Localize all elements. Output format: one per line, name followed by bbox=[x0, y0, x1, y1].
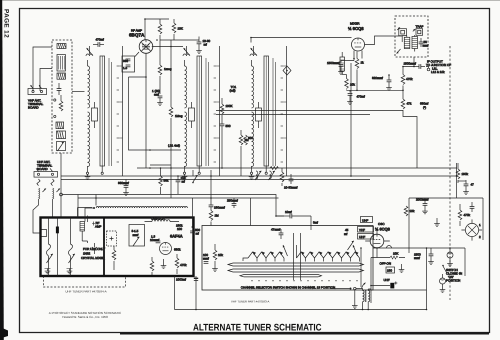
thin partition bbox=[57, 218, 59, 277]
svg-text:6BQ7A: 6BQ7A bbox=[129, 33, 145, 38]
svg-text:10k: 10k bbox=[410, 209, 415, 213]
cathode resistor 1k bbox=[355, 59, 364, 91]
c-match coil bbox=[145, 217, 180, 222]
svg-text:1M: 1M bbox=[215, 214, 220, 218]
svg-text:10-30mmf: 10-30mmf bbox=[284, 186, 298, 190]
wire v1 to strip2 bbox=[152, 46, 183, 48]
long dashed partition line bbox=[449, 46, 451, 300]
tall switch arm A bbox=[283, 245, 288, 256]
cap 1000mf symbol bbox=[194, 278, 198, 280]
transformer input terminals bbox=[330, 287, 363, 290]
dashed box converter bbox=[395, 16, 428, 57]
v1 internal structure bbox=[142, 43, 151, 52]
svg-text:470k: 470k bbox=[406, 77, 413, 81]
pilot lamp 1 bbox=[447, 248, 453, 266]
B+ bus bbox=[61, 175, 457, 177]
wire T1 secondary down to if cap bbox=[413, 57, 415, 67]
svg-text:47: 47 bbox=[471, 183, 475, 187]
uhf-vhf switch arm bbox=[192, 170, 197, 183]
osc feedback loop wire bbox=[409, 198, 483, 253]
wiper bar 2 bbox=[228, 269, 364, 272]
choke terminal dot bbox=[93, 207, 95, 209]
svg-text:(*): (*) bbox=[423, 106, 426, 110]
terminal box TRAP bbox=[413, 24, 424, 35]
cap 10mf top bbox=[276, 210, 311, 230]
svg-text:10k: 10k bbox=[350, 83, 355, 87]
tuner strip L6 interstage bbox=[183, 46, 220, 176]
svg-text:10K: 10K bbox=[178, 27, 183, 31]
resistor 10k osc bbox=[404, 206, 415, 216]
svg-text:10k: 10k bbox=[218, 253, 223, 257]
uhf mixer coil form bbox=[80, 222, 88, 244]
primary return to ground bbox=[352, 290, 358, 309]
svg-text:2000mmf: 2000mmf bbox=[416, 198, 429, 202]
svg-text:680k: 680k bbox=[174, 248, 181, 252]
svg-text:mmf: mmf bbox=[423, 44, 429, 48]
agc line from v1 bbox=[129, 77, 182, 150]
vertical feed at 211 bbox=[210, 170, 212, 198]
right return vertical bbox=[426, 248, 428, 310]
choke RFC2 bbox=[53, 188, 61, 218]
junction wire y90 bbox=[347, 89, 404, 91]
mixer cathode wires bbox=[354, 51, 362, 61]
terminal node 2 bbox=[54, 115, 56, 117]
tube V1 6BQ7A bbox=[139, 40, 153, 54]
svg-text:1N82: 1N82 bbox=[83, 252, 91, 256]
resistor 1M above enclosure bbox=[209, 211, 219, 226]
svg-text:PAGE 12: PAGE 12 bbox=[3, 9, 10, 38]
tall switch arm B bbox=[353, 245, 358, 256]
svg-text:1Meg: 1Meg bbox=[175, 114, 183, 118]
wire mixer plate right into dashed box bbox=[365, 36, 403, 45]
svg-text:TRAP: TRAP bbox=[416, 24, 424, 28]
tuning variable arrow bbox=[348, 241, 354, 250]
label box 180mmf bbox=[386, 267, 395, 273]
arrow into box bbox=[397, 49, 401, 54]
capacitor 1500mmf mixer bbox=[327, 61, 354, 75]
capacitor 2000mmf bbox=[416, 198, 429, 214]
svg-text:47k: 47k bbox=[407, 102, 412, 106]
transformer T1 secondary bbox=[412, 35, 418, 52]
agc source circle bbox=[60, 193, 63, 196]
resistor left in osc compartment bbox=[112, 246, 116, 270]
svg-text:100K: 100K bbox=[226, 104, 233, 108]
svg-text:mf: mf bbox=[344, 232, 347, 236]
wiper bar 3 bbox=[240, 275, 322, 277]
tube V3 osc half 6CQ8 bbox=[370, 234, 384, 248]
resistor 470k osc grid bbox=[458, 204, 470, 226]
svg-text:(.01 4mf): (.01 4mf) bbox=[168, 144, 180, 148]
bus mid right 2 bbox=[216, 114, 370, 116]
dashed box antenna matching unit bbox=[52, 40, 72, 153]
resistor in matching box bbox=[59, 95, 63, 111]
bold enclosure bbox=[41, 218, 194, 277]
transformer T1 primary bbox=[403, 35, 410, 48]
long rf choke to osc bbox=[96, 207, 187, 209]
page left black edge bar bbox=[0, 0, 4, 340]
svg-text:POSITION: POSITION bbox=[446, 279, 460, 283]
svg-text:mf: mf bbox=[182, 180, 185, 184]
to if amp label bbox=[92, 221, 102, 229]
uhf tuned line A bbox=[45, 218, 53, 277]
choke RFC1 bbox=[33, 188, 47, 237]
svg-text:FOR UHF ONLY: FOR UHF ONLY bbox=[83, 247, 105, 251]
svg-text:mmf: mmf bbox=[133, 233, 139, 237]
vertical feed tube side bbox=[376, 248, 378, 258]
wire dashed box to strip1 bbox=[72, 91, 85, 93]
AGC bus bbox=[61, 179, 370, 181]
svg-text:C-MATCH: C-MATCH bbox=[151, 217, 165, 221]
wire pilot bus down bbox=[464, 248, 466, 276]
b+ drop into uhf osc bbox=[190, 198, 200, 236]
capacitor 2mmf bbox=[57, 83, 62, 95]
svg-text:VHF TUNER PART #470593-A: VHF TUNER PART #470593-A bbox=[231, 300, 269, 304]
selector contacts group A bbox=[248, 252, 257, 262]
svg-text:10K: 10K bbox=[393, 252, 398, 256]
svg-text:CRYSTAL MIXER: CRYSTAL MIXER bbox=[81, 256, 106, 260]
resistor 1meg strip2 bbox=[169, 103, 183, 198]
svg-text:BOARD: BOARD bbox=[37, 167, 49, 171]
resistor left inside enclosure bbox=[212, 244, 223, 271]
uhf position box bbox=[361, 217, 373, 223]
choke input drop bbox=[85, 208, 93, 222]
resistor 10k osc inj bbox=[345, 75, 356, 91]
resistor 470k upper bbox=[401, 75, 413, 100]
svg-text:1000mf: 1000mf bbox=[176, 278, 186, 282]
transformer bottom wires bbox=[363, 302, 369, 310]
capacitor 47 with ground bbox=[458, 180, 474, 194]
resistor 470k uhf osc bbox=[150, 257, 154, 275]
svg-text:AMP: AMP bbox=[95, 225, 102, 229]
uhf antenna terminal board bbox=[34, 168, 58, 177]
cap 47mmf bbox=[271, 228, 283, 240]
winding 2 tap up bbox=[368, 289, 371, 291]
uhf tuned line B bbox=[67, 218, 75, 277]
tube V4 6AF4A bbox=[160, 243, 172, 255]
svg-text:VHF: VHF bbox=[359, 228, 365, 232]
vhf-uhf tuning boxes bbox=[344, 227, 374, 240]
v1 cathode wires down bbox=[129, 52, 147, 77]
svg-text:600: 600 bbox=[248, 136, 253, 140]
cap 1500mmf fil bbox=[414, 248, 434, 264]
resistor dropping top bbox=[158, 19, 162, 65]
svg-text:470mf: 470mf bbox=[357, 95, 366, 99]
resistor 1meg grid leak bbox=[158, 65, 172, 94]
capacitor 500 below 100K bbox=[220, 115, 231, 168]
cap 250mmf on feed bbox=[227, 198, 238, 208]
svg-text:180mmf: 180mmf bbox=[214, 206, 225, 210]
vertical feed left bbox=[370, 258, 372, 304]
filament drop to transformer bbox=[360, 248, 362, 287]
v1 plate wire up bbox=[145, 19, 169, 40]
bold partition bbox=[103, 218, 105, 277]
svg-text:180: 180 bbox=[387, 269, 392, 273]
svg-text:47mmf: 47mmf bbox=[271, 228, 280, 232]
resistor right uhf osc bbox=[175, 254, 187, 274]
capacitor 860mmf between buses bbox=[118, 180, 129, 196]
ground right of 180 box bbox=[399, 264, 405, 272]
capacitor 470mf strip1 bbox=[93, 38, 104, 47]
plate load wire bbox=[160, 39, 199, 41]
vhf antenna terminal board bbox=[28, 85, 47, 94]
resistor 47k lower bbox=[401, 99, 417, 168]
cap 10-30mmf bbox=[284, 174, 298, 190]
ground mid bbox=[434, 221, 440, 226]
resistor 1M right of strip2 bbox=[239, 130, 249, 176]
wires above bold box bbox=[78, 208, 93, 218]
svg-text:1500mmf: 1500mmf bbox=[327, 61, 340, 65]
on-off switch bbox=[442, 265, 446, 273]
screen bypass cap bbox=[152, 89, 163, 105]
b+ feed line bbox=[78, 195, 279, 218]
heater series resistor bbox=[269, 166, 280, 170]
v1 cathode return bbox=[145, 77, 147, 168]
right branch vertical bbox=[456, 163, 458, 198]
svg-text:BOARD: BOARD bbox=[28, 106, 40, 110]
balun transformer box bbox=[57, 55, 65, 72]
ground strip1 bbox=[85, 174, 91, 179]
svg-text:470mf: 470mf bbox=[96, 38, 105, 42]
svg-text:OFF-ON: OFF-ON bbox=[380, 262, 392, 266]
diamond test point bbox=[283, 66, 291, 75]
svg-text:470k: 470k bbox=[180, 263, 187, 267]
ganged trimmer dashed bbox=[107, 231, 117, 246]
uhf if out drop bbox=[195, 276, 197, 310]
main vertical left branch bbox=[403, 67, 414, 75]
svg-text:(adj): (adj) bbox=[230, 89, 236, 93]
power transformer T2 bbox=[363, 290, 370, 302]
ground strip2 bbox=[182, 174, 188, 179]
wire enclosure right to transformer bbox=[373, 247, 465, 249]
svg-text:6AF4A: 6AF4A bbox=[170, 234, 183, 239]
resistor 10K bbox=[172, 19, 183, 40]
terminal box B+ bbox=[397, 27, 406, 35]
if output terminal bbox=[426, 67, 430, 71]
agc feed line bbox=[63, 195, 285, 217]
contact dots row bbox=[251, 280, 357, 281]
svg-text:56k: 56k bbox=[164, 179, 169, 183]
bus mid right 1 bbox=[216, 110, 403, 112]
svg-text:250mmf: 250mmf bbox=[227, 199, 238, 203]
feed drop to enclosure bbox=[250, 198, 252, 226]
coil L1 top hatched bbox=[57, 44, 66, 49]
coil L4 box bbox=[57, 131, 66, 139]
svg-text:ALTERNATE TUNER SCHEMATIC: ALTERNATE TUNER SCHEMATIC bbox=[193, 323, 322, 334]
trimmer box 3-1.5mmf bbox=[129, 225, 145, 247]
svg-text:MIXER: MIXER bbox=[350, 22, 360, 26]
svg-text:1meg: 1meg bbox=[164, 67, 172, 71]
svg-text:mmf: mmf bbox=[203, 257, 209, 261]
bottom return wire bbox=[175, 309, 427, 311]
coil L3 bbox=[56, 122, 64, 129]
contact rail stubs bbox=[243, 245, 297, 261]
svg-text:10mf: 10mf bbox=[285, 210, 292, 214]
title underline thick segment bbox=[120, 332, 489, 334]
heater bus upper bbox=[137, 167, 457, 169]
svg-text:mf: mf bbox=[196, 232, 199, 236]
feedthrough black bar bbox=[56, 227, 59, 234]
svg-text:mmf: mmf bbox=[414, 256, 420, 260]
tuner strip L5 RF input bbox=[86, 46, 123, 176]
vhf enclosure box bbox=[202, 226, 373, 291]
uhf lead-in breaks bbox=[37, 179, 54, 186]
wire from matching box to antenna terminal bbox=[33, 47, 52, 91]
link strip1 to strip2 bbox=[150, 164, 171, 166]
svg-text:½ 6CQ8: ½ 6CQ8 bbox=[375, 227, 391, 232]
capacitor 56mmf bbox=[419, 38, 429, 48]
wire strip3 to mixer grid bbox=[251, 38, 352, 43]
v1 long grid return bbox=[170, 40, 172, 103]
page bottom-left corner shadow bbox=[0, 327, 8, 339]
svg-text:500: 500 bbox=[226, 124, 231, 128]
bold box down wire bbox=[174, 276, 176, 310]
svg-text:470k: 470k bbox=[464, 213, 471, 217]
svg-text:UHF: UHF bbox=[384, 278, 390, 282]
svg-text:860mmf: 860mmf bbox=[118, 181, 129, 185]
cap box 330-1.5mf at v1 grid bbox=[122, 56, 135, 72]
wiper bar 1 bbox=[228, 263, 364, 266]
tuned coil with arrow bbox=[57, 142, 66, 152]
svg-text:UHF: UHF bbox=[362, 219, 368, 223]
cap 1.5mmf bbox=[150, 235, 160, 243]
strip3 bottom trimmer coil B bbox=[269, 171, 275, 180]
capacitor +10mf hanging bbox=[176, 176, 186, 194]
svg-text:UHF TUNER PART #470594-A: UHF TUNER PART #470594-A bbox=[65, 290, 106, 294]
crossover hump on filament bus bbox=[387, 246, 392, 248]
svg-text:1k: 1k bbox=[361, 61, 365, 65]
svg-text:Howard W. Sams & Co., Inc. 195: Howard W. Sams & Co., Inc. 1958 bbox=[62, 315, 108, 319]
selector shaft verticals bbox=[294, 233, 301, 280]
ground strip3 bbox=[249, 174, 255, 179]
svg-text:820mmf: 820mmf bbox=[372, 76, 383, 80]
cap 100mmf inside left bbox=[203, 253, 209, 263]
page top edge shadow bbox=[0, 0, 500, 1]
svg-text:CHANNEL SELECTOR SWITCH SHOWN: CHANNEL SELECTOR SWITCH SHOWN IN CHANNEL… bbox=[241, 286, 335, 290]
svg-text:180k: 180k bbox=[462, 172, 469, 176]
dashed outline below bold box bbox=[44, 276, 126, 287]
svg-text:UHF: UHF bbox=[359, 235, 365, 239]
capacitor 10-30mf bbox=[196, 37, 210, 54]
svg-text:100: 100 bbox=[177, 227, 182, 231]
if output coupling cap 1500mmf bbox=[404, 62, 426, 69]
capacitor 820mmf at mixer ground bbox=[372, 75, 392, 90]
svg-text:mf: mf bbox=[204, 43, 207, 47]
electrolytic black cap bbox=[371, 282, 397, 289]
coil L2 bbox=[57, 73, 65, 79]
ground under uhf osc tube bbox=[161, 259, 167, 268]
v3 wires bbox=[365, 230, 390, 241]
svg-text:1.5: 1.5 bbox=[123, 66, 128, 70]
selector contacts group B bbox=[297, 252, 306, 262]
resistor 100K right of strip2 bbox=[220, 98, 232, 114]
resistor 56k hanging bbox=[159, 168, 169, 194]
cap 180mmf above enclosure bbox=[209, 198, 225, 211]
cap 470mf bypass bbox=[347, 90, 365, 104]
wire choke down to mixer bbox=[87, 216, 89, 223]
balun output wire down bbox=[60, 153, 62, 217]
mixer cathode drop bbox=[350, 63, 352, 176]
small resistor in heater line bbox=[371, 256, 405, 259]
capacitor osc bbox=[470, 202, 475, 212]
svg-text:L12 & 10k: L12 & 10k bbox=[431, 70, 445, 74]
transformer switch arm bbox=[362, 283, 366, 289]
oscillator coil turret circle bbox=[461, 219, 482, 240]
resistor 600k left of strip3 bbox=[244, 135, 254, 145]
svg-text:3mf: 3mf bbox=[313, 221, 318, 225]
svg-text:½ 6CQ8: ½ 6CQ8 bbox=[348, 26, 364, 31]
terminal node bbox=[54, 99, 56, 101]
secondary wire to right bbox=[371, 289, 427, 291]
osc injection coil box bbox=[340, 52, 347, 75]
svg-text:OSC: OSC bbox=[378, 222, 385, 226]
strip3 bottom trimmer coil A bbox=[255, 171, 261, 180]
pilot lamp 2 bbox=[440, 274, 446, 292]
resistor 180k right bbox=[456, 163, 468, 183]
crystal diode 1N82 bbox=[92, 243, 97, 254]
svg-text:TO JUNCTION OF: TO JUNCTION OF bbox=[426, 63, 451, 67]
resistor at strip3 bottom bbox=[280, 168, 284, 186]
tube V2 mixer half 6CQ8 bbox=[351, 38, 364, 51]
svg-text:330: 330 bbox=[123, 59, 128, 63]
tuner strip L7 mixer input bbox=[250, 46, 287, 176]
